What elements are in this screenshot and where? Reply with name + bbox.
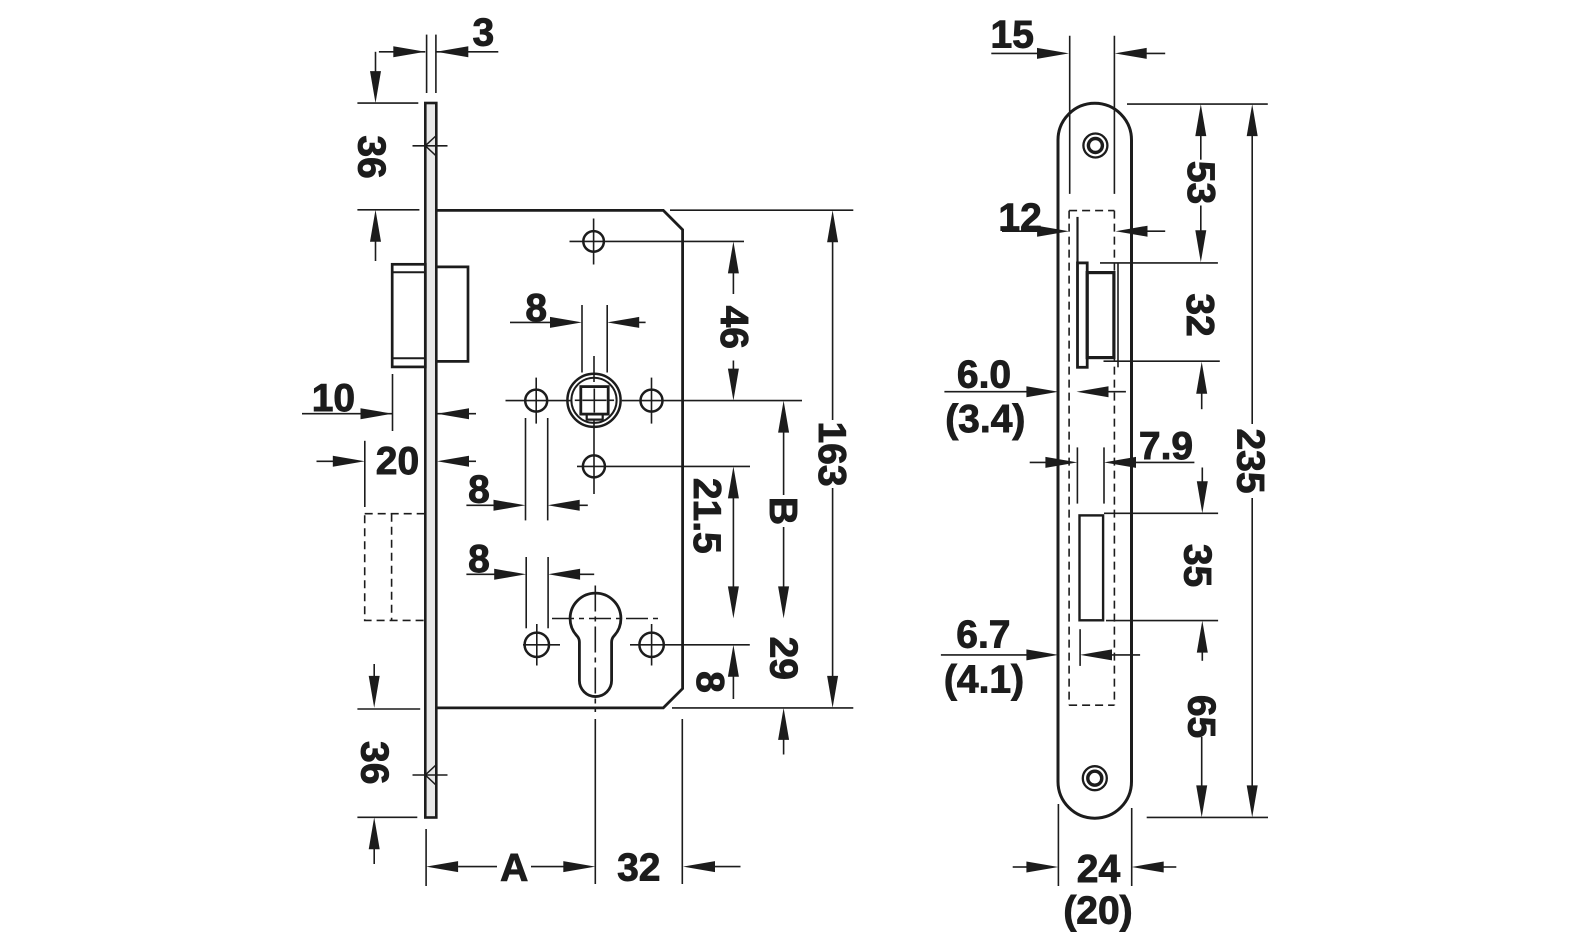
horizontal centre line follower level / B-dim top reference [506, 400, 572, 402]
svg-text:35: 35 [1175, 544, 1218, 587]
follower inner circle [571, 378, 616, 423]
latch bolt body inside case [436, 267, 468, 362]
svg-text:3: 3 [473, 12, 495, 55]
svg-text:36: 36 [353, 741, 396, 784]
plate top reference line [1127, 103, 1268, 105]
faceplate front view [1058, 103, 1132, 818]
euro profile cylinder hole [570, 593, 621, 696]
svg-text:12: 12 [998, 197, 1041, 240]
latch opening right edge [1117, 263, 1119, 367]
svg-text:6.7: 6.7 [956, 614, 1010, 657]
svg-text:8: 8 [525, 287, 547, 330]
svg-text:A: A [500, 847, 528, 890]
32-dim bottom reference (latch bottom) [1104, 360, 1220, 362]
svg-text:65: 65 [1179, 695, 1222, 738]
svg-text:32: 32 [1178, 293, 1221, 336]
svg-text:24: 24 [1077, 848, 1121, 891]
lower hub hole [583, 455, 605, 477]
svg-text:46: 46 [712, 306, 755, 349]
deadbolt face dashed line [391, 514, 393, 621]
svg-text:B: B [761, 497, 804, 525]
svg-text:20: 20 [376, 440, 419, 483]
svg-text:8: 8 [688, 671, 731, 693]
break mark upper [413, 145, 448, 147]
centre line right cyl hole / 8-dim reference [630, 644, 750, 646]
svg-text:6.0: 6.0 [957, 354, 1011, 397]
lock case body outline [436, 210, 682, 708]
case bottom reference right [672, 707, 853, 709]
centre line below follower [593, 420, 595, 494]
svg-text:53: 53 [1179, 161, 1222, 204]
35-dim top reference (slot top) [1104, 512, 1218, 514]
centre line top hole / 46-dim top reference [570, 240, 745, 242]
dashed lock case behind plate [1069, 210, 1114, 212]
left handle screw hole [525, 390, 547, 412]
centre line lower hub hole / 21.5-dim top reference [577, 465, 750, 467]
plate bottom reference line [1147, 816, 1268, 818]
right cylinder screw hole [639, 633, 663, 657]
top fixing hole [583, 231, 604, 252]
break mark lower [413, 774, 448, 776]
svg-text:32: 32 [617, 846, 660, 889]
svg-text:(3.4): (3.4) [945, 398, 1025, 441]
deadbolt dashed outline [365, 514, 426, 621]
follower notch [587, 414, 603, 420]
svg-text:(20): (20) [1063, 890, 1132, 933]
deadbolt slot [1080, 515, 1104, 620]
top screw hole front [1083, 134, 1107, 158]
latch bevel edge above shoulder [1076, 217, 1078, 263]
svg-text:235: 235 [1228, 428, 1271, 493]
cylinder axis extension below case [594, 719, 596, 884]
latch bolt front: flat face [1087, 273, 1114, 358]
bottom screw hole front [1083, 766, 1107, 790]
centre line above square [593, 356, 595, 382]
cylinder centre line horizontal [552, 618, 658, 620]
follower square spindle hole [581, 387, 608, 415]
latch bolt front: bevel face [1078, 263, 1088, 367]
faceplate (side view, left) [425, 103, 436, 818]
53-dim bottom reference (latch top) [1100, 262, 1218, 264]
svg-text:(4.1): (4.1) [944, 659, 1024, 702]
reference line case right extended down [681, 719, 683, 884]
svg-text:7.9: 7.9 [1139, 425, 1193, 468]
35/65 reference (slot bottom) [1106, 620, 1218, 622]
left cylinder screw hole [525, 633, 549, 657]
right handle screw hole [641, 390, 663, 412]
svg-text:15: 15 [991, 14, 1034, 57]
svg-text:29: 29 [762, 637, 805, 680]
svg-text:36: 36 [349, 135, 392, 178]
cylinder centre line vertical [594, 586, 596, 713]
latch bolt head [392, 264, 425, 367]
follower outer circle [567, 374, 620, 427]
svg-text:163: 163 [810, 421, 853, 486]
svg-text:21.5: 21.5 [685, 478, 728, 554]
